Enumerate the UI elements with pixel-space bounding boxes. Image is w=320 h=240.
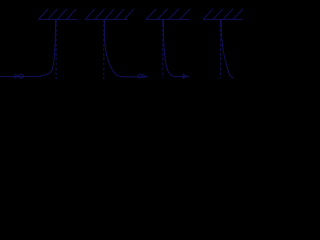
ceiling 3 (hatched rigid wall support)	[146, 9, 190, 20]
ceiling 4 (hatched rigid wall support)	[203, 9, 243, 20]
wall 4 solid stub below ceiling	[219, 19, 221, 26]
potential curve D descending from wall 4	[221, 19, 234, 77]
ceiling 1 (hatched rigid wall support)	[39, 9, 78, 20]
wall 1 dashed asymptote	[55, 19, 57, 79]
potential curve B descending from wall 2	[104, 19, 148, 76]
wall 3 dashed asymptote	[162, 19, 164, 78]
potential curve A rising into wall 1	[0, 19, 56, 76]
arrow marker on curve C (open triangle)	[183, 74, 187, 78]
wall 2 dashed asymptote	[103, 19, 105, 79]
wall 3 solid stub below ceiling	[162, 19, 164, 26]
arrow marker on curve A	[14, 75, 19, 78]
potential curve C descending from wall 3	[163, 19, 189, 76]
arrow marker on curve B (bead + arrowhead)	[138, 74, 146, 78]
wall 1 solid stub below ceiling	[55, 19, 57, 26]
wall 4 dashed asymptote	[219, 19, 221, 78]
ceiling 2 (hatched rigid wall support)	[85, 9, 134, 20]
